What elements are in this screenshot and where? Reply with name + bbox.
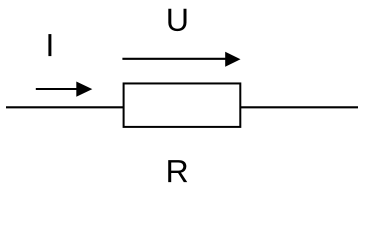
label I bbox=[48, 34, 51, 56]
label R bbox=[168, 160, 187, 182]
resistor R bbox=[124, 83, 241, 126]
wire left bbox=[6, 106, 124, 108]
wire right bbox=[240, 106, 358, 108]
voltage arrow U bbox=[122, 52, 240, 67]
current arrow I bbox=[36, 82, 93, 97]
label U bbox=[168, 9, 186, 31]
